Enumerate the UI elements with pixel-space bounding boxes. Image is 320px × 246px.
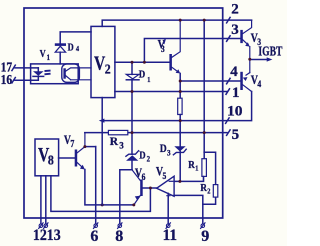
svg-text:1: 1 <box>47 52 51 62</box>
svg-text:6: 6 <box>90 228 98 245</box>
phototransistor envelope <box>62 64 80 82</box>
svg-text:R: R <box>110 136 119 148</box>
wire V2 bottom rail <box>101 98 103 205</box>
wire V5 plus input <box>174 176 203 181</box>
svg-text:R: R <box>188 159 195 171</box>
wire pin11 <box>167 193 169 223</box>
wire D1 to D2 <box>131 80 133 154</box>
diode D4 wire top <box>60 32 91 43</box>
terminal slash 17 <box>12 65 15 71</box>
diode D1 label <box>139 69 151 84</box>
svg-text:IGBT: IGBT <box>258 44 282 59</box>
terminal slash 5 <box>227 130 231 136</box>
terminal slash 10 <box>226 118 230 124</box>
svg-text:6: 6 <box>142 172 146 182</box>
diode D1 <box>126 74 139 79</box>
driver V8 box <box>35 139 59 176</box>
amplifier V2 box <box>91 26 115 97</box>
wire node1 <box>115 91 227 93</box>
terminal mark 12 <box>39 224 43 228</box>
wire rail 204 from node2 <box>203 20 205 152</box>
resistor R3 label <box>110 136 125 150</box>
transistor V3p (V3 prime) <box>169 54 172 71</box>
svg-text:V: V <box>40 49 46 60</box>
wire pin13 <box>45 176 47 224</box>
optocoupler V1 label <box>40 49 51 62</box>
wire V8 to V7 <box>59 157 75 159</box>
wire V6 base to V5 <box>143 187 157 189</box>
svg-text:5: 5 <box>163 171 167 181</box>
wire node5 <box>85 132 227 134</box>
zener D3 <box>174 146 185 151</box>
wire V8 feedback to V5 output <box>51 176 150 212</box>
transistor V3 label <box>251 32 261 47</box>
transistor V7 <box>75 150 78 167</box>
svg-text:4: 4 <box>257 80 262 90</box>
terminal slash 3 <box>227 36 231 42</box>
terminal mark 11 <box>166 224 170 228</box>
transistor V6 label <box>135 167 146 182</box>
svg-text:10: 10 <box>227 104 243 120</box>
wire node2 <box>102 20 251 26</box>
svg-text:2: 2 <box>147 154 151 164</box>
comparator V5 <box>157 176 175 196</box>
wire pin17 <box>15 67 38 69</box>
terminal slash 4 <box>227 78 231 84</box>
transistor V6 <box>140 180 143 197</box>
transistor V3p label <box>158 39 166 54</box>
svg-text:1: 1 <box>195 164 199 173</box>
svg-text:3: 3 <box>161 44 165 54</box>
optocoupler V1 box <box>31 64 79 84</box>
driver V8 label <box>38 144 54 168</box>
wire V3p emitter rail <box>179 73 181 98</box>
svg-text:1213: 1213 <box>33 227 61 244</box>
svg-text:1: 1 <box>147 76 151 85</box>
terminal mark 9 <box>201 224 205 228</box>
svg-text:8: 8 <box>48 151 54 167</box>
zener D2 label <box>139 149 150 163</box>
svg-text:2: 2 <box>231 2 239 18</box>
wire node4 <box>180 80 240 82</box>
svg-text:1: 1 <box>232 85 240 101</box>
amplifier V2 label <box>94 52 111 77</box>
resistor R2 label <box>200 183 211 196</box>
svg-text:3: 3 <box>167 148 171 158</box>
zener D2 <box>126 151 139 157</box>
transistor V7 label <box>64 134 75 149</box>
svg-text:D: D <box>139 69 145 81</box>
diode D4 label <box>68 43 80 54</box>
svg-text:2: 2 <box>207 187 211 196</box>
LED inside V1 <box>37 68 39 71</box>
resistor R1 label <box>188 159 199 172</box>
svg-text:8: 8 <box>115 228 123 245</box>
wire V7 emitter to rail <box>85 170 134 205</box>
svg-text:7: 7 <box>70 138 74 149</box>
wire V7 collector to pin6 <box>85 146 96 148</box>
svg-text:V: V <box>94 52 105 74</box>
wire pin8 <box>120 170 132 224</box>
resistor R2 <box>213 185 218 198</box>
outer box <box>24 8 223 218</box>
transistor V4 label <box>251 74 262 89</box>
resistor (unlabeled) on rail <box>178 98 182 114</box>
svg-text:4: 4 <box>76 45 80 54</box>
svg-text:3: 3 <box>119 141 124 151</box>
svg-text:11: 11 <box>163 227 178 244</box>
wire V2 output <box>115 61 169 63</box>
resistor R3 <box>108 130 127 134</box>
light coupling marks <box>45 70 49 72</box>
svg-text:2: 2 <box>105 60 111 76</box>
terminal mark 13 <box>44 224 48 228</box>
svg-text:4: 4 <box>230 64 238 80</box>
wire pin12 <box>40 176 42 224</box>
svg-text:16: 16 <box>1 73 13 88</box>
svg-text:9: 9 <box>201 228 209 245</box>
svg-text:D: D <box>68 43 74 54</box>
terminal mark 8 <box>118 224 122 228</box>
terminal slash 1 <box>226 89 230 95</box>
resistor R1 <box>202 159 207 177</box>
zener D3 label <box>160 142 171 157</box>
terminal slash 2 <box>227 17 231 23</box>
terminal slash 16 <box>12 78 15 84</box>
diode D4 <box>55 43 66 46</box>
svg-text:3: 3 <box>231 22 239 38</box>
transistor V3 <box>240 30 243 43</box>
comparator V5 label <box>156 166 166 181</box>
svg-text:5: 5 <box>232 127 240 143</box>
wire node3 <box>144 39 240 63</box>
svg-text:D: D <box>160 142 167 155</box>
phototransistor element <box>63 70 65 78</box>
wire V5 minus input to pin9 jog <box>174 195 216 204</box>
IGBT output wire with arrow <box>250 59 268 61</box>
wire pin9 <box>202 204 204 223</box>
svg-text:D: D <box>139 149 145 161</box>
wire divider jog <box>204 152 215 184</box>
terminal mark 6 <box>94 224 98 228</box>
transistor V4 <box>240 72 243 90</box>
wire pin16 <box>15 79 38 81</box>
wire pin6 <box>95 147 97 224</box>
wire D1 top lead <box>131 62 133 74</box>
wire node10 with arrow <box>99 119 105 123</box>
